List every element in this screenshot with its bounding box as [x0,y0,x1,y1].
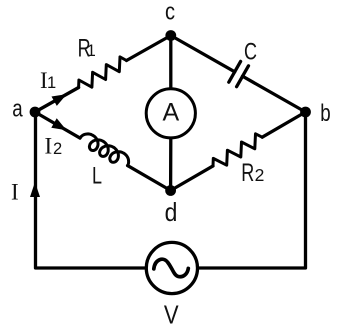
svg-text:2: 2 [53,140,62,158]
wire capacitor to b [243,76,306,112]
svg-text:a: a [12,95,22,122]
wire b down-right side [197,112,305,268]
resistor R2 [213,134,262,166]
current arrow I2 (a toward d) [51,118,66,130]
node c junction dot [165,30,176,41]
node a junction dot [30,107,41,118]
svg-text:c: c [165,0,175,25]
wire ammeter to d [169,138,172,191]
resistor R1 [79,57,127,88]
svg-text:V: V [164,301,179,330]
svg-text:R: R [241,158,254,187]
current arrow I (up left wire) [30,182,40,197]
wire d to R2 [171,166,213,191]
svg-text:I: I [11,179,19,204]
capacitor C plates [229,61,249,86]
svg-text:1: 1 [47,74,56,92]
svg-text:L: L [92,163,102,189]
svg-text:2: 2 [255,165,265,185]
wire c to ammeter [169,36,172,89]
svg-text:d: d [165,199,178,227]
wire R2 to b [262,112,305,137]
node b junction dot [300,107,311,118]
ammeter U1 circle [146,89,195,138]
svg-text:b: b [320,100,330,127]
wire c to capacitor [171,36,235,72]
AC source sine wave [154,259,189,277]
inductor L [80,134,129,166]
wire R1 to c [127,36,171,61]
svg-text:I: I [45,134,53,159]
svg-text:C: C [244,39,257,65]
wire a down-left side [36,112,147,268]
svg-text:1: 1 [87,42,96,60]
wire a to R1 [35,88,79,113]
svg-text:A: A [162,99,179,127]
wire inductor to d [128,166,171,191]
current arrow I1 (a toward c) [52,94,67,106]
AC source V circle [146,242,197,293]
node d junction dot [165,185,176,196]
wire a to inductor [35,112,80,138]
